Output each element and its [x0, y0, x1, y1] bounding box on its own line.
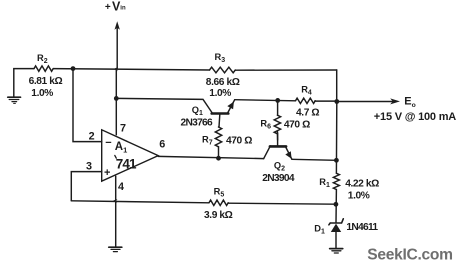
- ground right (below D1): [330, 249, 343, 253]
- wire bottom feedback: [71, 201, 336, 204]
- node R6 top junction: [275, 98, 280, 103]
- transistor Q1: [181, 100, 235, 129]
- svg-text:470 Ω: 470 Ω: [284, 120, 310, 131]
- wire top rail: [53, 69, 337, 71]
- wire pin 4 to ground: [115, 176, 117, 247]
- wire rail corner down to output node: [336, 70, 338, 102]
- svg-text:−: −: [105, 137, 111, 149]
- wire op-amp output pin 6: [158, 156, 264, 158]
- svg-text:8.66 kΩ: 8.66 kΩ: [206, 77, 240, 88]
- svg-text:6.81 kΩ: 6.81 kΩ: [29, 76, 63, 87]
- wire left branch from top rail to ground: [14, 69, 34, 97]
- node Q2 emitter junction: [334, 158, 339, 163]
- svg-text:7: 7: [120, 122, 126, 134]
- svg-text:4.7 Ω: 4.7 Ω: [296, 108, 319, 119]
- svg-text:2N3904: 2N3904: [262, 173, 295, 184]
- wire non-inverting input pin 3 loop: [71, 172, 101, 201]
- node output / R7 junction: [216, 156, 221, 161]
- wire +Vin down to op-amp pin 7: [115, 69, 117, 135]
- svg-text:2N3766: 2N3766: [181, 117, 214, 128]
- svg-text:+15 V @ 100 mA: +15 V @ 100 mA: [374, 111, 456, 123]
- svg-text:1.0%: 1.0%: [348, 191, 370, 202]
- node supply to Q1 branch: [114, 96, 119, 101]
- resistor R2: [29, 53, 63, 99]
- wire right column upper: [335, 102, 337, 174]
- resistor R4: [296, 85, 320, 119]
- svg-text:1.0%: 1.0%: [209, 88, 231, 99]
- ground middle (pin 4): [109, 247, 122, 251]
- svg-text:741: 741: [116, 157, 137, 172]
- svg-text:470 Ω: 470 Ω: [226, 135, 252, 146]
- resistor R7: [202, 127, 252, 158]
- wire supply branch to Q1 collector: [116, 98, 212, 112]
- junction jog at pin 4 / feedback wire crossing: [113, 199, 117, 203]
- svg-text:1.0%: 1.0%: [31, 88, 53, 99]
- zener diode D1: [314, 219, 378, 248]
- wire Q2 emitter to right column: [292, 159, 337, 160]
- svg-text:3.9 kΩ: 3.9 kΩ: [204, 210, 233, 221]
- +Vin supply arrow: [105, 0, 126, 69]
- node junction R2 / pin2: [71, 66, 76, 71]
- svg-text:1N4611: 1N4611: [346, 222, 378, 233]
- wire R1 to D1: [335, 190, 337, 223]
- svg-text:3: 3: [86, 161, 92, 173]
- wire Q1 emitter to R4: [235, 100, 296, 101]
- resistor R6: [260, 100, 310, 140]
- output Eo arrow: [337, 95, 456, 123]
- svg-text:4.22 kΩ: 4.22 kΩ: [345, 179, 379, 190]
- svg-text:4: 4: [118, 181, 124, 193]
- resistor R1: [319, 173, 379, 201]
- svg-text:2: 2: [89, 131, 95, 143]
- svg-text:+: +: [104, 167, 110, 179]
- svg-text:in: in: [120, 6, 126, 12]
- transistor Q2: [262, 133, 295, 184]
- resistor R5: [204, 187, 233, 222]
- node output column top: [334, 99, 339, 104]
- svg-text:SeekIC.com: SeekIC.com: [367, 247, 452, 264]
- junction jog at +Vin / top rail crossing: [114, 67, 119, 71]
- node feedback / D1 junction: [334, 202, 339, 207]
- op-amp A1: [102, 130, 159, 181]
- ground left: [8, 97, 21, 103]
- svg-text:6: 6: [159, 139, 165, 151]
- svg-text:+: +: [105, 2, 111, 13]
- wire R4 to output node: [315, 100, 337, 102]
- resistor R3: [206, 52, 240, 99]
- wire inverting input pin 2: [73, 69, 102, 142]
